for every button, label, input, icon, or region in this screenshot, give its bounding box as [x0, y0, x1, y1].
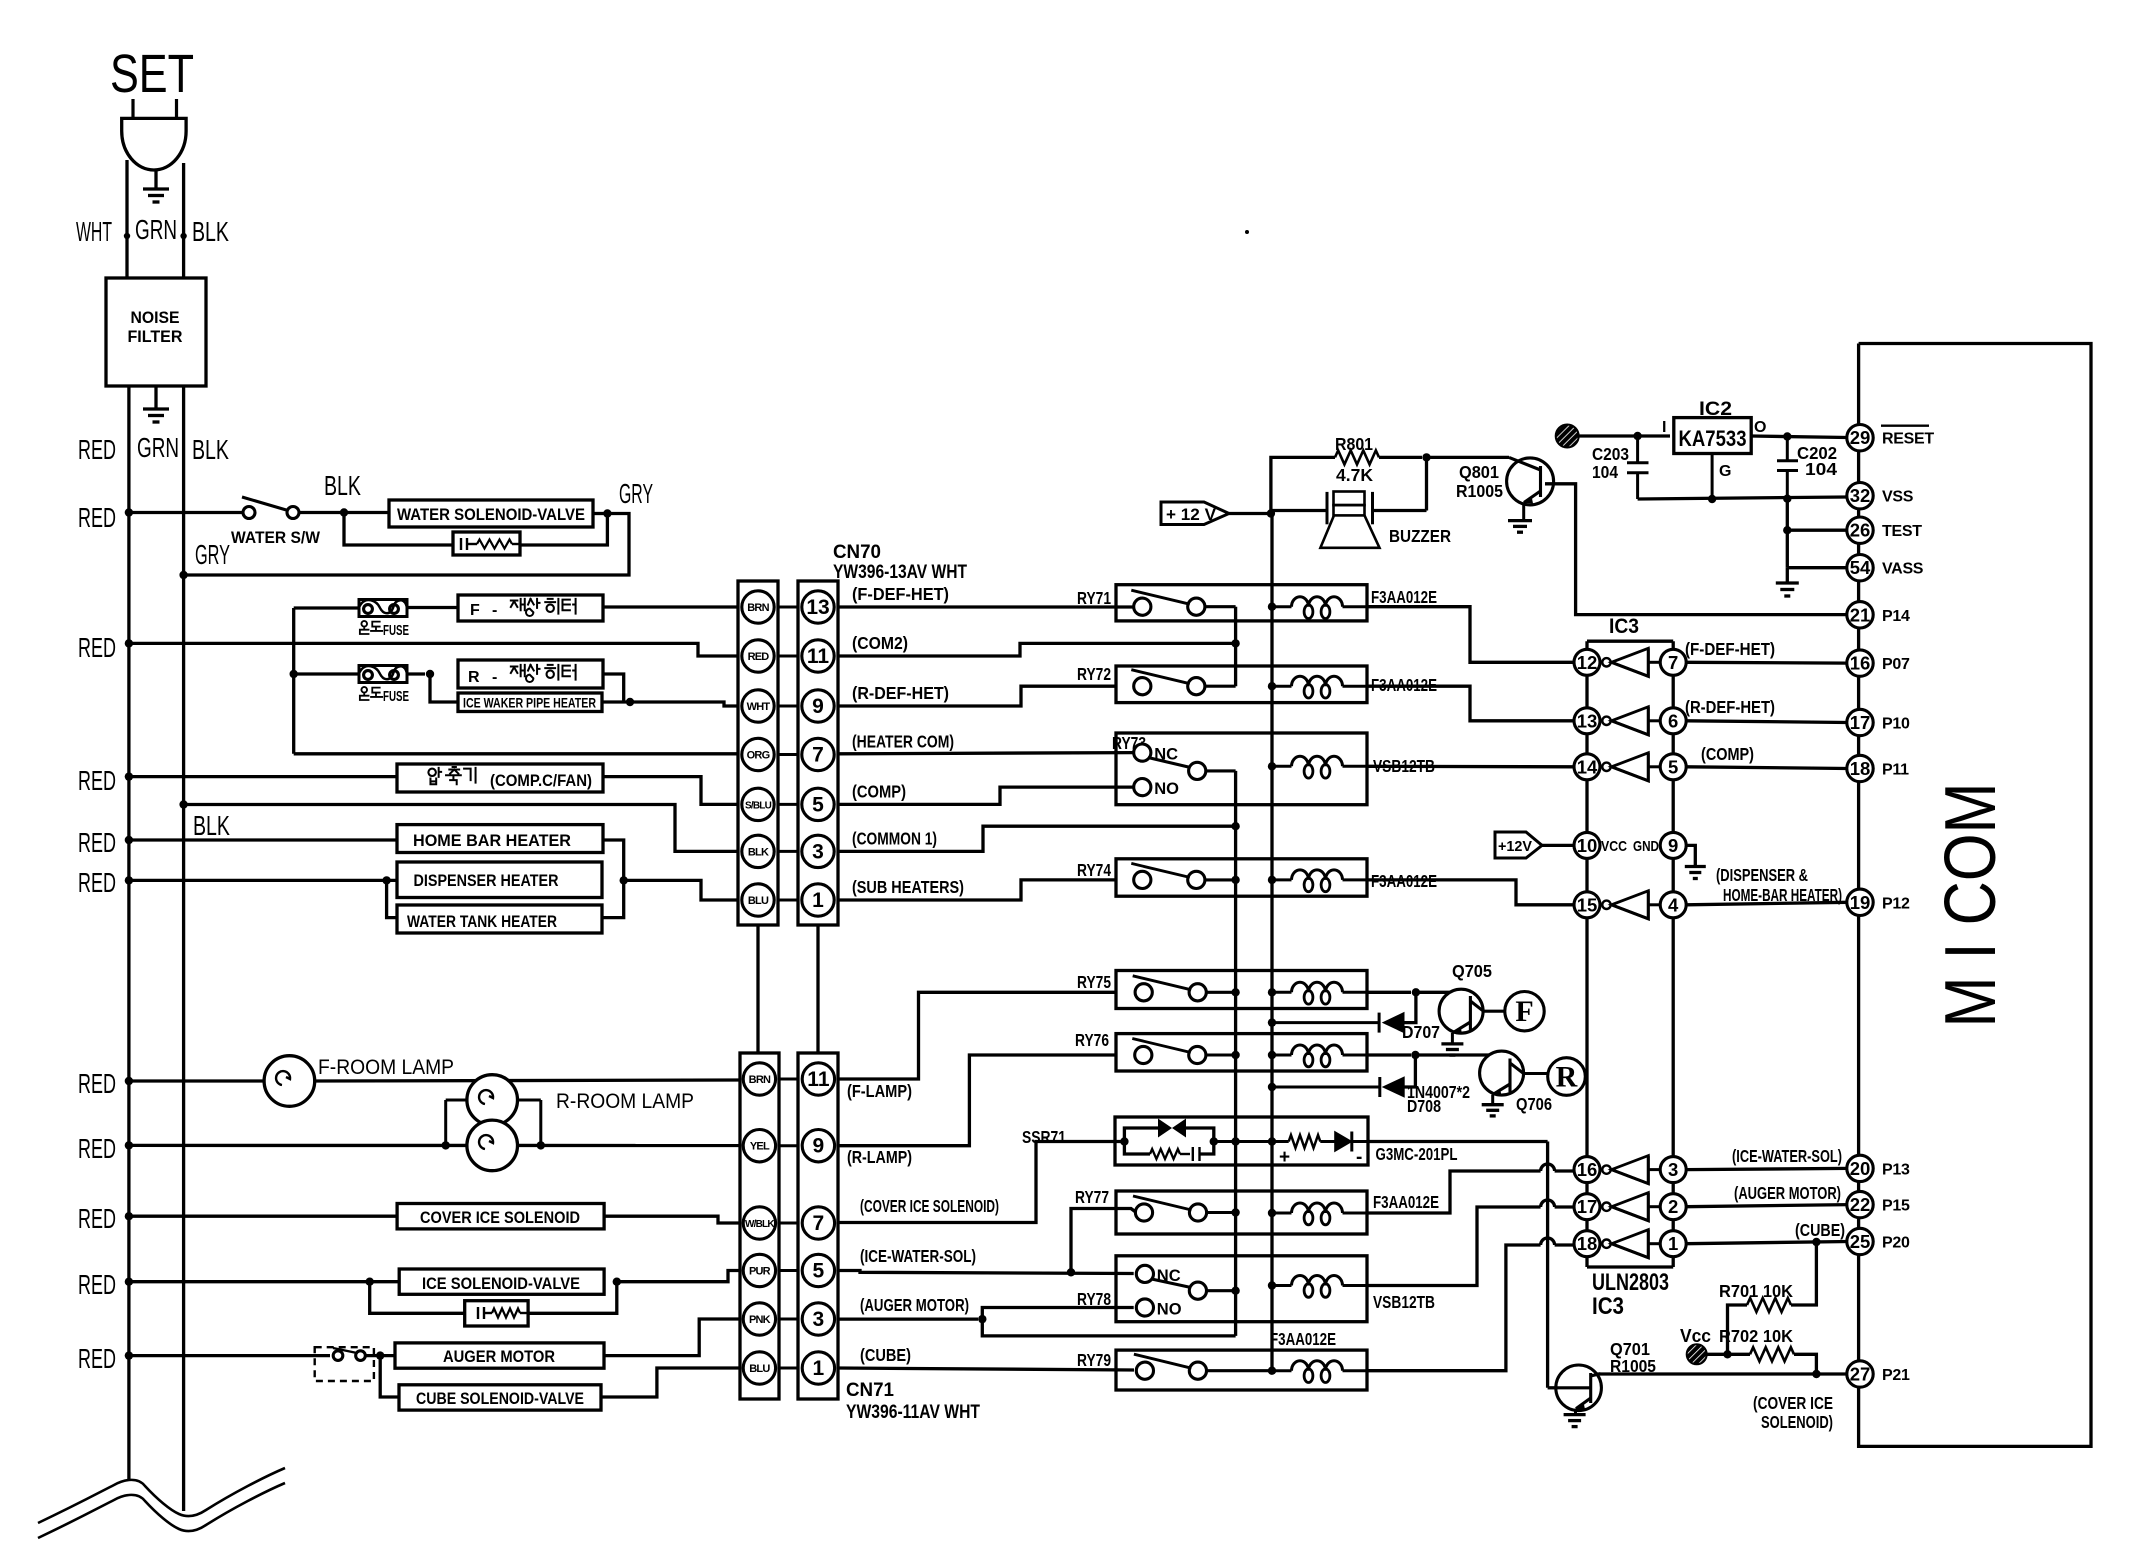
wire to WHT pin [630, 702, 738, 706]
F defrost heater box [458, 595, 603, 621]
svg-text:BRN: BRN [747, 602, 769, 614]
svg-text:M I COM: M I COM [1931, 783, 2011, 1028]
junction CUBE R701 [1812, 1238, 1820, 1246]
wire home bar right [603, 840, 624, 880]
power node +12V arrow [1161, 502, 1229, 525]
wire COM2 RED to pin RED [129, 643, 738, 656]
micom pin 54 VASS [1847, 555, 1873, 581]
svg-text:R701 10K: R701 10K [1719, 1281, 1793, 1301]
svg-text:RED: RED [78, 765, 116, 796]
junction ice heater out [626, 698, 634, 706]
junction R801 out [1422, 453, 1430, 461]
relay coil RY72 F3AA012E [1268, 682, 1276, 690]
wire COMP pin5 to RY73 NO [838, 787, 1134, 804]
svg-text:(DISPENSER &: (DISPENSER & [1716, 865, 1808, 885]
svg-text:5: 5 [1668, 756, 1678, 777]
CN70 row 9 WHT [778, 705, 798, 708]
wire TEST pin26 [1787, 529, 1847, 532]
junction C202 bottom [1783, 495, 1791, 503]
wire RY76 coil to Q706 base [1367, 1053, 1411, 1056]
junction Q706 base node [1411, 1051, 1419, 1059]
wire junction to auger motor [365, 1354, 395, 1357]
svg-text:(R-LAMP): (R-LAMP) [847, 1147, 912, 1167]
svg-text:ULN2803: ULN2803 [1592, 1269, 1669, 1296]
micom pin 21 P14 [1847, 602, 1873, 628]
junction SSR bus A [1231, 1137, 1239, 1145]
svg-text:P12: P12 [1882, 895, 1910, 912]
svg-text:BLU: BLU [748, 895, 769, 907]
svg-text:104: 104 [1805, 459, 1837, 479]
svg-text:(ICE-WATER-SOL): (ICE-WATER-SOL) [860, 1246, 976, 1266]
ice maker pipe heater box [458, 693, 602, 712]
wire HEATER COM pin7 to RY73 NC [838, 753, 1134, 754]
svg-text:3: 3 [813, 1308, 825, 1331]
svg-text:(F-LAMP): (F-LAMP) [847, 1081, 912, 1101]
wire COMP pin5 to P11 [1686, 767, 1847, 769]
svg-text:(F-DEF-HET): (F-DEF-HET) [1685, 639, 1775, 659]
svg-text:WHT: WHT [76, 216, 112, 247]
ground under VASS node [1786, 568, 1789, 583]
svg-text:HOME BAR HEATER: HOME BAR HEATER [413, 831, 571, 850]
CN71 row 5 PUR [779, 1269, 798, 1272]
micom pin 29 RESET [1847, 425, 1873, 451]
svg-text:1: 1 [813, 1357, 825, 1380]
svg-text:SSR71: SSR71 [1022, 1127, 1066, 1147]
svg-text:BRN: BRN [749, 1074, 771, 1086]
svg-text:-: - [1356, 1147, 1362, 1168]
wire RED to dispenser [129, 879, 397, 882]
junction +12V node [1267, 509, 1275, 517]
thermal fuse F1 [359, 600, 407, 617]
wire DISPENSER pin4 to P12 [1686, 902, 1847, 905]
svg-text:29: 29 [1850, 427, 1871, 448]
CN70 row 11 RED [778, 655, 798, 658]
wire fuse1 to F-heater [407, 606, 458, 609]
wire F-DEF-HET pin7 to P07 [1686, 661, 1847, 665]
svg-text:P15: P15 [1882, 1198, 1910, 1215]
svg-text:19: 19 [1850, 892, 1871, 913]
wire water tank branch [387, 880, 397, 917]
ground under noise filter [154, 386, 157, 409]
svg-text:GRN: GRN [135, 214, 177, 245]
svg-text:KA7533: KA7533 [1679, 426, 1747, 451]
label fuse2 ondoFUSE [360, 687, 369, 700]
svg-text:R1005: R1005 [1456, 481, 1503, 501]
micom pin 20 P13 [1847, 1155, 1873, 1181]
svg-text:16: 16 [1850, 653, 1871, 674]
svg-text:F-ROOM LAMP: F-ROOM LAMP [318, 1056, 454, 1079]
wire COMMON1 pin3 to bus [838, 826, 1236, 851]
svg-text:13: 13 [806, 596, 829, 619]
CN71 row 3 PNK [779, 1318, 798, 1321]
svg-text:3: 3 [1668, 1159, 1678, 1180]
wire GRY return [184, 514, 629, 576]
svg-text:RY79: RY79 [1077, 1350, 1111, 1370]
junction fuse2 out [426, 670, 434, 678]
svg-text:RED: RED [78, 1133, 116, 1164]
junction BLK rail [179, 800, 187, 808]
junction RED rail comp [125, 772, 133, 780]
wire G line to VSS pin32 [1638, 497, 1847, 499]
wire AUGER MOTOR pin2 to P15 [1686, 1205, 1849, 1207]
svg-text:18: 18 [1850, 758, 1871, 779]
CN70 row 1 BLU [778, 899, 798, 902]
svg-text:(COVER ICE: (COVER ICE [1753, 1393, 1833, 1413]
svg-text:7: 7 [1668, 652, 1678, 673]
svg-text:PUR: PUR [749, 1266, 771, 1278]
wire RED to F-room lamp [129, 1079, 264, 1082]
svg-text:IC3: IC3 [1592, 1293, 1624, 1320]
cube solenoid valve box [399, 1385, 601, 1410]
diode D708 1N4007*2 [1404, 1055, 1415, 1087]
junction RED rail homebar [125, 836, 133, 844]
compressor box [397, 764, 603, 792]
svg-text:VASS: VASS [1882, 561, 1924, 578]
svg-text:15: 15 [1577, 894, 1598, 915]
wire water tank right [602, 880, 624, 917]
svg-text:RED: RED [78, 1343, 116, 1374]
connector CN70 pin column [798, 581, 838, 925]
junction G pin [1708, 495, 1716, 503]
connector CN70 wire-color column [738, 581, 778, 925]
svg-text:5: 5 [813, 1260, 825, 1283]
water solenoid valve box [389, 500, 593, 527]
svg-text:(SUB HEATERS): (SUB HEATERS) [852, 877, 964, 897]
IC3 inverter 13-6 [1602, 717, 1610, 725]
junction COMMON1 bus [1231, 822, 1239, 830]
wire bus +12V vertical [1270, 514, 1273, 1371]
svg-text:5: 5 [812, 793, 824, 816]
relay coil RY77 F3AA012E [1268, 1209, 1276, 1217]
wire switch to valve [299, 511, 389, 514]
svg-text:(COM2): (COM2) [852, 633, 908, 653]
junction r-lamp left [442, 1141, 450, 1149]
svg-text:F3AA012E: F3AA012E [1270, 1329, 1336, 1349]
svg-text:RED: RED [748, 651, 770, 663]
relay coil RY78 VSB12TB [1268, 1281, 1276, 1289]
junction R702 P21 [1812, 1370, 1820, 1378]
ground under Q705 [1441, 1042, 1463, 1045]
relay coil RY75 F3AA012E [1268, 988, 1276, 996]
IC3 inverter 18-1 [1602, 1240, 1610, 1248]
svg-text:11: 11 [807, 645, 830, 668]
CN71 row 11 BRN [779, 1078, 798, 1081]
wire HEATER COM to ORG pin [294, 752, 738, 755]
junction ice valve right [613, 1278, 621, 1286]
junction RY79 bus B coil [1268, 1367, 1276, 1375]
svg-text:BLK: BLK [193, 810, 230, 841]
wire RY72 coil to IC3 pin13 [1367, 686, 1574, 721]
svg-text:NO: NO [1154, 780, 1179, 798]
svg-text:(HEATER COM): (HEATER COM) [852, 732, 954, 752]
svg-text:VCC: VCC [1601, 838, 1627, 855]
svg-text:P10: P10 [1882, 716, 1910, 733]
micom pin 27 P21 [1847, 1361, 1873, 1387]
svg-text:11: 11 [807, 1068, 830, 1091]
svg-text:COVER ICE SOLENOID: COVER ICE SOLENOID [420, 1208, 580, 1227]
svg-text:(CUBE): (CUBE) [1795, 1220, 1845, 1240]
svg-text:HOME-BAR HEATER): HOME-BAR HEATER) [1723, 885, 1842, 905]
svg-text:(F-DEF-HET): (F-DEF-HET) [852, 584, 949, 604]
ground under Q701 [1564, 1413, 1586, 1416]
wire ICE-WATER-SOL pin3 to P13 [1686, 1168, 1849, 1169]
svg-text:(COMMON 1): (COMMON 1) [852, 828, 937, 848]
svg-text:-: - [492, 602, 497, 619]
svg-text:P13: P13 [1882, 1161, 1910, 1178]
svg-text:R-ROOM LAMP: R-ROOM LAMP [556, 1090, 694, 1113]
dispenser heater box [397, 862, 602, 898]
wire ice valve to PUR pin [617, 1271, 740, 1282]
svg-text:16: 16 [1577, 1159, 1598, 1180]
svg-text:7: 7 [812, 744, 824, 767]
svg-text:AUGER MOTOR: AUGER MOTOR [443, 1347, 555, 1366]
svg-text:BLK: BLK [748, 846, 769, 858]
svg-text:RED: RED [78, 1203, 116, 1234]
svg-text:RY74: RY74 [1077, 860, 1111, 880]
junction auger tee [978, 1315, 986, 1323]
svg-text:(ICE-WATER-SOL): (ICE-WATER-SOL) [1732, 1146, 1842, 1166]
relay coil RY74 F3AA012E [1268, 876, 1276, 884]
wire RED to cover ice solenoid [129, 1215, 397, 1218]
svg-text:-: - [492, 669, 497, 686]
page break symbol bottom left [38, 1468, 285, 1523]
svg-text:S/BLU: S/BLU [745, 800, 772, 811]
svg-text:F3AA012E: F3AA012E [1373, 1192, 1439, 1212]
svg-text:RY71: RY71 [1077, 588, 1111, 608]
junction water valve left [340, 508, 348, 516]
svg-text:7: 7 [813, 1212, 825, 1235]
CN70 row 3 BLK [778, 850, 798, 853]
micom pin 22 P15 [1847, 1191, 1873, 1217]
micom pin 17 P10 [1847, 709, 1873, 735]
snubber of ice valve [370, 1282, 465, 1314]
wire branch to fuse2 [294, 672, 359, 675]
svg-text:17: 17 [1850, 712, 1871, 733]
svg-text:D708: D708 [1407, 1096, 1441, 1116]
svg-text:CUBE SOLENOID-VALVE: CUBE SOLENOID-VALVE [416, 1389, 584, 1408]
svg-text:+ 12 V: + 12 V [1166, 505, 1217, 524]
svg-text:GRN: GRN [137, 432, 179, 463]
svg-text:GRY: GRY [619, 478, 653, 509]
svg-text:RED: RED [78, 1068, 116, 1099]
wire heaters to BLU pin [624, 880, 738, 900]
wire auger junction to bus A bottom [982, 1319, 1235, 1336]
svg-text:VSS: VSS [1882, 489, 1914, 506]
svg-text:21: 21 [1850, 604, 1871, 625]
cover ice solenoid box [397, 1204, 604, 1229]
svg-text:G3MC-201PL: G3MC-201PL [1376, 1144, 1458, 1164]
wire R-LAMP pin9 to RY76 [838, 1055, 1116, 1146]
micom U1 box [1859, 344, 2091, 1447]
junction COM2 top [1231, 639, 1239, 647]
svg-text:D707: D707 [1402, 1022, 1440, 1042]
svg-text:Vcc: Vcc [1680, 1326, 1711, 1346]
svg-text:9: 9 [1668, 835, 1678, 856]
svg-text:F: F [470, 602, 480, 619]
lamp R-ROOM LAMP upper [444, 1100, 447, 1145]
svg-text:4.7K: 4.7K [1336, 465, 1373, 485]
junction dots on plug wires [124, 233, 130, 239]
wire auger junction to cube valve [380, 1356, 399, 1397]
wire buzzer to R801 node [1373, 509, 1427, 512]
svg-text:SOLENOID): SOLENOID) [1761, 1412, 1833, 1432]
buzzer BZ1 [1271, 509, 1327, 512]
junction C203 top [1633, 432, 1641, 440]
svg-text:ICE SOLENOID-VALVE: ICE SOLENOID-VALVE [422, 1274, 580, 1293]
svg-text:IC3: IC3 [1609, 615, 1639, 638]
svg-text:FUSE: FUSE [383, 689, 409, 705]
svg-text:2: 2 [1668, 1196, 1678, 1217]
svg-text:17: 17 [1577, 1196, 1598, 1217]
wire F-room lamp to BRN pin [315, 1080, 740, 1081]
noise filter NF1 [106, 278, 206, 386]
svg-text:F3AA012E: F3AA012E [1371, 587, 1437, 607]
svg-text:(AUGER MOTOR): (AUGER MOTOR) [860, 1295, 969, 1315]
svg-text:FUSE: FUSE [383, 623, 409, 639]
svg-text:RY77: RY77 [1075, 1187, 1109, 1207]
micom pin 16 P07 [1847, 650, 1873, 676]
connector CN71 wire-color column [740, 1053, 779, 1399]
ground under plug [154, 170, 157, 189]
junction ice valve left [366, 1278, 374, 1286]
svg-text:SET: SET [110, 44, 194, 104]
svg-text:9: 9 [813, 1135, 825, 1158]
svg-text:RED: RED [78, 632, 116, 663]
svg-text:Q705: Q705 [1452, 961, 1492, 981]
junction RY76 bus A [1231, 1051, 1239, 1059]
svg-text:DISPENSER HEATER: DISPENSER HEATER [414, 871, 559, 890]
R defrost heater box [458, 660, 603, 688]
junction RY74 bus A [1231, 876, 1239, 884]
snubber of water valve [344, 513, 453, 546]
svg-text:+: + [1279, 1147, 1290, 1168]
svg-text:Q801: Q801 [1459, 462, 1499, 482]
wire RY73 coil to IC3 pin14 [1367, 765, 1574, 769]
CN71 row 7 W/BLK [779, 1222, 798, 1225]
wire junction down to ice heater [430, 674, 458, 702]
wire CUBE pin1 to RY79 [838, 1368, 1134, 1370]
svg-text:12: 12 [1577, 652, 1598, 673]
svg-text:BLK: BLK [192, 434, 229, 465]
wire RED to auger switch [129, 1354, 330, 1357]
wire RY71 coil to IC3 pin12 [1367, 607, 1574, 663]
svg-text:R801: R801 [1335, 434, 1373, 454]
stray mark top [1245, 230, 1249, 234]
svg-text:WATER S/W: WATER S/W [231, 528, 321, 547]
svg-text:6: 6 [1668, 710, 1678, 731]
junction RED rail f-lamp [125, 1077, 133, 1085]
wire RY74 coil to IC3 pin15 [1367, 880, 1574, 905]
wire RY79 coil to IC3 pin18 [1367, 1245, 1541, 1371]
svg-text:20: 20 [1850, 1158, 1871, 1179]
wire comp to S/BLU pin [603, 777, 738, 805]
svg-text:22: 22 [1850, 1194, 1871, 1215]
junction GRY on BLK rail [179, 571, 187, 579]
wire auger motor to PNK pin [604, 1319, 740, 1356]
node F fan [1505, 992, 1544, 1031]
svg-text:WHT: WHT [747, 701, 771, 713]
svg-text:(COMP): (COMP) [1701, 744, 1754, 764]
micom pin 18 P11 [1847, 755, 1873, 781]
svg-text:BUZZER: BUZZER [1389, 526, 1451, 546]
IC3 pins 10 VCC GND 9 [1574, 832, 1600, 858]
svg-text:NOISE: NOISE [131, 309, 180, 327]
IC3 inverter 15-4 [1602, 901, 1610, 909]
IC3 column lines [1585, 641, 1588, 1267]
svg-text:P14: P14 [1882, 608, 1910, 625]
svg-text:RED: RED [78, 502, 116, 533]
junction Q705 base node [1412, 988, 1420, 996]
svg-text:O: O [1754, 419, 1766, 436]
wire BLK to BLK pin [184, 805, 738, 852]
ice solenoid valve box [399, 1269, 604, 1294]
wire RED rail [127, 386, 130, 1481]
svg-text:YW396-11AV WHT: YW396-11AV WHT [846, 1402, 980, 1423]
wire RY77 coil to IC3 pin16 [1367, 1171, 1541, 1213]
wire RED to comp box [129, 775, 397, 778]
svg-text:(COMP): (COMP) [852, 781, 906, 801]
svg-text:RED: RED [78, 434, 116, 465]
svg-text:NO: NO [1157, 1301, 1182, 1319]
svg-text:I: I [1662, 419, 1666, 436]
junction ICE-WATER tee [1067, 1268, 1075, 1276]
svg-text:R702 10K: R702 10K [1719, 1326, 1793, 1346]
connector CN71 pin column [798, 1053, 838, 1399]
junction water valve right [603, 509, 611, 517]
svg-text:TEST: TEST [1882, 523, 1922, 540]
svg-text:ICE WAKER PIPE HEATER: ICE WAKER PIPE HEATER [463, 695, 596, 711]
svg-text:+12V: +12V [1498, 838, 1532, 855]
junction RY75 bus A [1231, 988, 1239, 996]
svg-text:RED: RED [78, 867, 116, 898]
svg-text:18: 18 [1577, 1233, 1598, 1254]
svg-text:G: G [1719, 463, 1731, 480]
svg-text:BLU: BLU [749, 1363, 770, 1375]
power node Vcc top hatched [1556, 425, 1579, 448]
svg-text:1: 1 [1668, 1233, 1678, 1254]
junction dispenser right [620, 876, 628, 884]
svg-text:R: R [1556, 1061, 1578, 1094]
svg-text:54: 54 [1850, 557, 1871, 578]
diode D707 [1404, 992, 1416, 1022]
svg-text:(COVER ICE SOLENOID): (COVER ICE SOLENOID) [860, 1196, 999, 1216]
svg-text:P21: P21 [1882, 1367, 1910, 1384]
micom pin 25 P20 [1847, 1228, 1873, 1254]
svg-text:9: 9 [812, 695, 824, 718]
wire cube valve to BLU pin [601, 1368, 740, 1397]
junction RED rail dispenser [125, 876, 133, 884]
wire bus COM2 vertical lower segment [1234, 771, 1237, 1336]
junction Vcc node [1723, 1350, 1731, 1358]
wire C202 node down [1786, 499, 1789, 568]
wire F-DEF-HET pin13 to RY71 [838, 605, 1134, 608]
resistor R801 4.7K [1271, 457, 1335, 513]
svg-text:RY76: RY76 [1075, 1030, 1109, 1050]
junction dispenser left [382, 876, 390, 884]
svg-text:RY72: RY72 [1077, 664, 1111, 684]
svg-text:RED: RED [78, 1269, 116, 1300]
wire RED to R-room lamps [129, 1144, 740, 1147]
svg-text:27: 27 [1850, 1364, 1871, 1385]
CN71 row 9 YEL [779, 1144, 798, 1147]
wire RED rail to water switch [129, 511, 243, 514]
wire ice heater right [602, 700, 626, 703]
wire +12V to bus [1229, 512, 1268, 515]
wire F-heater to BRN pin [603, 605, 738, 608]
wire Q701 collector to P21 [1595, 1372, 1849, 1375]
water tank heater box [397, 905, 602, 933]
wire COVER ICE pin7 to SSR71 [838, 1142, 1121, 1223]
